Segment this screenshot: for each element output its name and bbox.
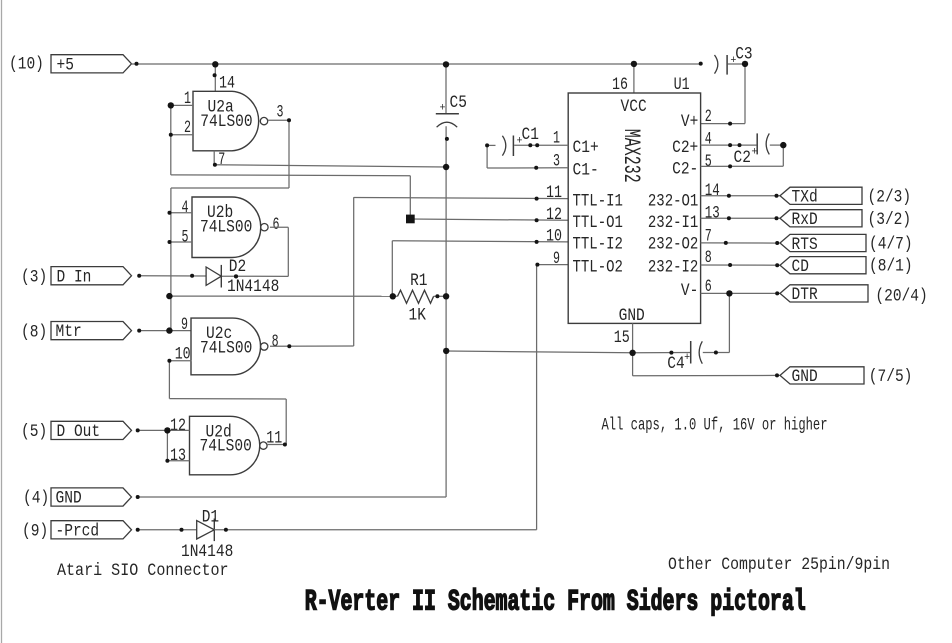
wire U2a inputs to TTL-O1 net bbox=[170, 105, 172, 174]
connector DTR box bbox=[780, 285, 868, 302]
svg-text:8: 8 bbox=[272, 332, 279, 352]
wire D Out row bbox=[138, 429, 190, 431]
wire D1 to TTL-O2 bbox=[214, 529, 536, 531]
svg-text:R-Verter II Schematic From Sid: R-Verter II Schematic From Siders pictor… bbox=[305, 586, 806, 620]
wire D In row to D2 bbox=[139, 275, 206, 277]
svg-text:5: 5 bbox=[182, 227, 189, 247]
wire C1 plus to pin1 bbox=[514, 144, 568, 146]
wire U2c pin8 output to TTL-I1 bbox=[270, 345, 354, 347]
wire U2b pin4 stub bbox=[170, 212, 193, 214]
svg-text:RTS: RTS bbox=[792, 235, 818, 255]
svg-text:Atari SIO Connector: Atari SIO Connector bbox=[57, 561, 229, 581]
svg-text:4: 4 bbox=[705, 130, 712, 150]
wire U2c pin10 stub bbox=[169, 360, 191, 362]
svg-text:74LS00: 74LS00 bbox=[200, 218, 252, 238]
svg-text:TTL-O2: TTL-O2 bbox=[573, 257, 623, 277]
svg-text:3: 3 bbox=[277, 103, 284, 123]
svg-text:C1: C1 bbox=[522, 125, 539, 145]
svg-text:74LS00: 74LS00 bbox=[200, 437, 252, 457]
wire ground to GND arrow bbox=[632, 353, 634, 376]
connector GND right box bbox=[780, 367, 864, 384]
nand gate U2c bbox=[191, 318, 261, 375]
wire Mtr row bbox=[139, 330, 191, 332]
svg-text:GND: GND bbox=[792, 367, 818, 387]
capacitor C2 bbox=[756, 133, 758, 154]
capacitor C5 bbox=[436, 113, 459, 115]
wire 232-I2 to CD bbox=[701, 264, 781, 266]
svg-text:-Prcd: -Prcd bbox=[56, 521, 100, 541]
wire 232-O2 to RTS bbox=[701, 242, 780, 244]
svg-text:7: 7 bbox=[218, 150, 225, 170]
wire -Prcd to D1 bbox=[138, 529, 197, 531]
svg-text:CD: CD bbox=[792, 257, 809, 277]
wire U2a pin7 to ground bus bbox=[213, 151, 215, 165]
wire Mtr net to R1 bbox=[169, 295, 392, 297]
diode D2 bbox=[206, 267, 221, 285]
svg-text:12: 12 bbox=[170, 416, 186, 436]
connector +5 box bbox=[51, 55, 132, 73]
svg-text:MAX232: MAX232 bbox=[618, 129, 644, 183]
svg-text:(3): (3) bbox=[21, 268, 47, 288]
connector D In box bbox=[51, 267, 132, 285]
junction square node bbox=[406, 215, 415, 224]
wire D2 cathode to U2b out bbox=[221, 275, 288, 277]
svg-text:V-: V- bbox=[681, 281, 698, 301]
wire U2a pin1 stub bbox=[171, 104, 193, 106]
svg-text:(20/4): (20/4) bbox=[875, 287, 927, 307]
connector CD box bbox=[780, 257, 866, 274]
svg-text:3: 3 bbox=[553, 152, 560, 172]
svg-text:TTL-I2: TTL-I2 bbox=[573, 235, 623, 255]
svg-text:C5: C5 bbox=[450, 93, 467, 113]
wire C3 to V+ corner bbox=[728, 63, 745, 65]
svg-text:11: 11 bbox=[266, 428, 282, 448]
svg-text:D Out: D Out bbox=[57, 422, 101, 442]
wire +5 to C5 bbox=[445, 64, 447, 114]
svg-text:4: 4 bbox=[182, 198, 189, 218]
svg-text:D2: D2 bbox=[229, 257, 246, 277]
op-amp U1 MAX232 body bbox=[568, 93, 700, 323]
svg-text:U1: U1 bbox=[674, 75, 690, 95]
diode D1 bbox=[197, 521, 215, 539]
svg-text:1N4148: 1N4148 bbox=[227, 277, 279, 297]
svg-text:C2+: C2+ bbox=[672, 138, 698, 158]
nand gate U2a bbox=[193, 91, 259, 151]
nand gate U2d bbox=[190, 416, 260, 475]
svg-text:14: 14 bbox=[219, 74, 235, 94]
svg-text:+5: +5 bbox=[57, 55, 74, 75]
svg-text:DTR: DTR bbox=[792, 285, 819, 305]
svg-text:C4: C4 bbox=[667, 354, 684, 374]
wire U2c pin10 to U2d pin11 bbox=[168, 361, 170, 399]
svg-text:1N4148: 1N4148 bbox=[181, 542, 233, 562]
svg-text:+: + bbox=[440, 103, 446, 115]
wire U2a pin2 stub bbox=[171, 134, 193, 136]
svg-text:232-O2: 232-O2 bbox=[648, 235, 698, 255]
svg-text:(5): (5) bbox=[21, 422, 47, 442]
wire 232-O1 to TXd bbox=[701, 195, 780, 197]
connector -Prcd box bbox=[51, 521, 132, 539]
wire U2b pin6 output bbox=[270, 226, 288, 228]
svg-text:(2/3): (2/3) bbox=[868, 188, 912, 208]
wire C1 minus to pin3 bbox=[487, 144, 495, 146]
svg-text:11: 11 bbox=[546, 183, 562, 203]
svg-text:9: 9 bbox=[181, 315, 188, 335]
capacitor C4 bbox=[690, 341, 692, 364]
svg-text:232-I1: 232-I1 bbox=[648, 213, 698, 233]
wire V- to DTR bbox=[701, 292, 780, 294]
svg-text:GND: GND bbox=[56, 489, 82, 509]
svg-text:12: 12 bbox=[546, 205, 562, 225]
svg-text:14: 14 bbox=[705, 181, 720, 201]
svg-text:RxD: RxD bbox=[792, 210, 818, 230]
svg-text:74LS00: 74LS00 bbox=[200, 112, 252, 132]
svg-text:R1: R1 bbox=[410, 271, 427, 291]
wire 232-I1 to RxD bbox=[701, 217, 780, 219]
svg-text:6: 6 bbox=[273, 215, 280, 235]
svg-text:2: 2 bbox=[705, 107, 712, 127]
svg-text:15: 15 bbox=[614, 328, 630, 348]
svg-text:+: + bbox=[751, 147, 757, 159]
svg-text:C1-: C1- bbox=[573, 161, 599, 181]
svg-text:(10): (10) bbox=[9, 55, 44, 75]
svg-text:TTL-O1: TTL-O1 bbox=[573, 213, 623, 233]
connector GND box bbox=[51, 488, 132, 506]
svg-text:9: 9 bbox=[553, 249, 560, 269]
resistor R1 bbox=[393, 295, 398, 297]
svg-text:VCC: VCC bbox=[621, 97, 647, 117]
svg-text:Other Computer 25pin/9pin: Other Computer 25pin/9pin bbox=[668, 555, 890, 575]
svg-text:5: 5 bbox=[705, 152, 712, 172]
svg-text:74LS00: 74LS00 bbox=[200, 338, 252, 358]
wire pin15 row bbox=[446, 351, 632, 353]
nand gate U2b bbox=[192, 197, 261, 258]
svg-text:232-O1: 232-O1 bbox=[648, 191, 698, 211]
svg-text:(4): (4) bbox=[23, 489, 49, 509]
svg-text:Mtr: Mtr bbox=[56, 322, 82, 342]
svg-text:(7/5): (7/5) bbox=[869, 367, 913, 387]
svg-text:10: 10 bbox=[175, 345, 191, 365]
wire ground bus vertical bbox=[445, 126, 447, 497]
wire pin4 to C2 bbox=[701, 144, 757, 146]
scan artifact left border line bbox=[1, 0, 3, 643]
svg-text:13: 13 bbox=[705, 204, 720, 224]
wire end dots small bbox=[135, 62, 139, 66]
wire +5 rail bbox=[132, 63, 701, 65]
svg-text:C2-: C2- bbox=[672, 160, 698, 180]
connector D Out box bbox=[51, 421, 132, 439]
wire C4 to V- net bbox=[703, 352, 730, 354]
wire pin14 drop to U2a bbox=[214, 64, 216, 91]
svg-text:(8): (8) bbox=[21, 323, 47, 343]
wire GND(4) row bbox=[138, 496, 446, 498]
svg-text:16: 16 bbox=[612, 75, 628, 95]
wire pin16 drop to U1 bbox=[633, 64, 635, 93]
svg-text:D1: D1 bbox=[202, 508, 219, 528]
connector RxD box bbox=[780, 210, 862, 227]
svg-text:C2: C2 bbox=[734, 148, 751, 168]
capacitor C1 bbox=[502, 136, 505, 156]
svg-text:TTL-I1: TTL-I1 bbox=[573, 191, 623, 211]
wire vertical U2b inputs chain bbox=[170, 188, 172, 331]
connector RTS box bbox=[780, 234, 866, 251]
svg-text:V+: V+ bbox=[681, 112, 698, 132]
svg-text:GND: GND bbox=[619, 306, 645, 326]
svg-text:All caps, 1.0 Uf, 16V or highe: All caps, 1.0 Uf, 16V or higher bbox=[602, 416, 828, 436]
connector Mtr box bbox=[51, 322, 132, 340]
svg-text:D In: D In bbox=[57, 267, 92, 287]
svg-text:(8/1): (8/1) bbox=[869, 257, 913, 277]
svg-text:1K: 1K bbox=[409, 306, 427, 326]
wire U2d pin12 to pin13 bbox=[166, 430, 168, 460]
svg-text:13: 13 bbox=[170, 446, 186, 466]
wire U2a pin3 output bbox=[268, 119, 289, 121]
svg-text:(9): (9) bbox=[22, 521, 48, 541]
wire U2d pin11 output bbox=[267, 444, 286, 446]
svg-text:TXd: TXd bbox=[792, 188, 818, 208]
svg-text:(4/7): (4/7) bbox=[869, 235, 913, 255]
junction dots bold bbox=[212, 61, 218, 67]
svg-text:10: 10 bbox=[546, 227, 562, 247]
wire R1 to TTL-I2 bbox=[391, 241, 393, 297]
svg-text:C1+: C1+ bbox=[573, 138, 599, 158]
capacitor C3 bbox=[715, 55, 718, 74]
svg-text:+: + bbox=[684, 352, 690, 364]
connector TXd box bbox=[780, 187, 862, 204]
svg-text:(3/2): (3/2) bbox=[868, 210, 912, 230]
svg-text:232-I2: 232-I2 bbox=[648, 257, 698, 277]
wire C2 to pin5 bbox=[770, 144, 784, 146]
wire U2b pin5 stub bbox=[170, 241, 193, 243]
